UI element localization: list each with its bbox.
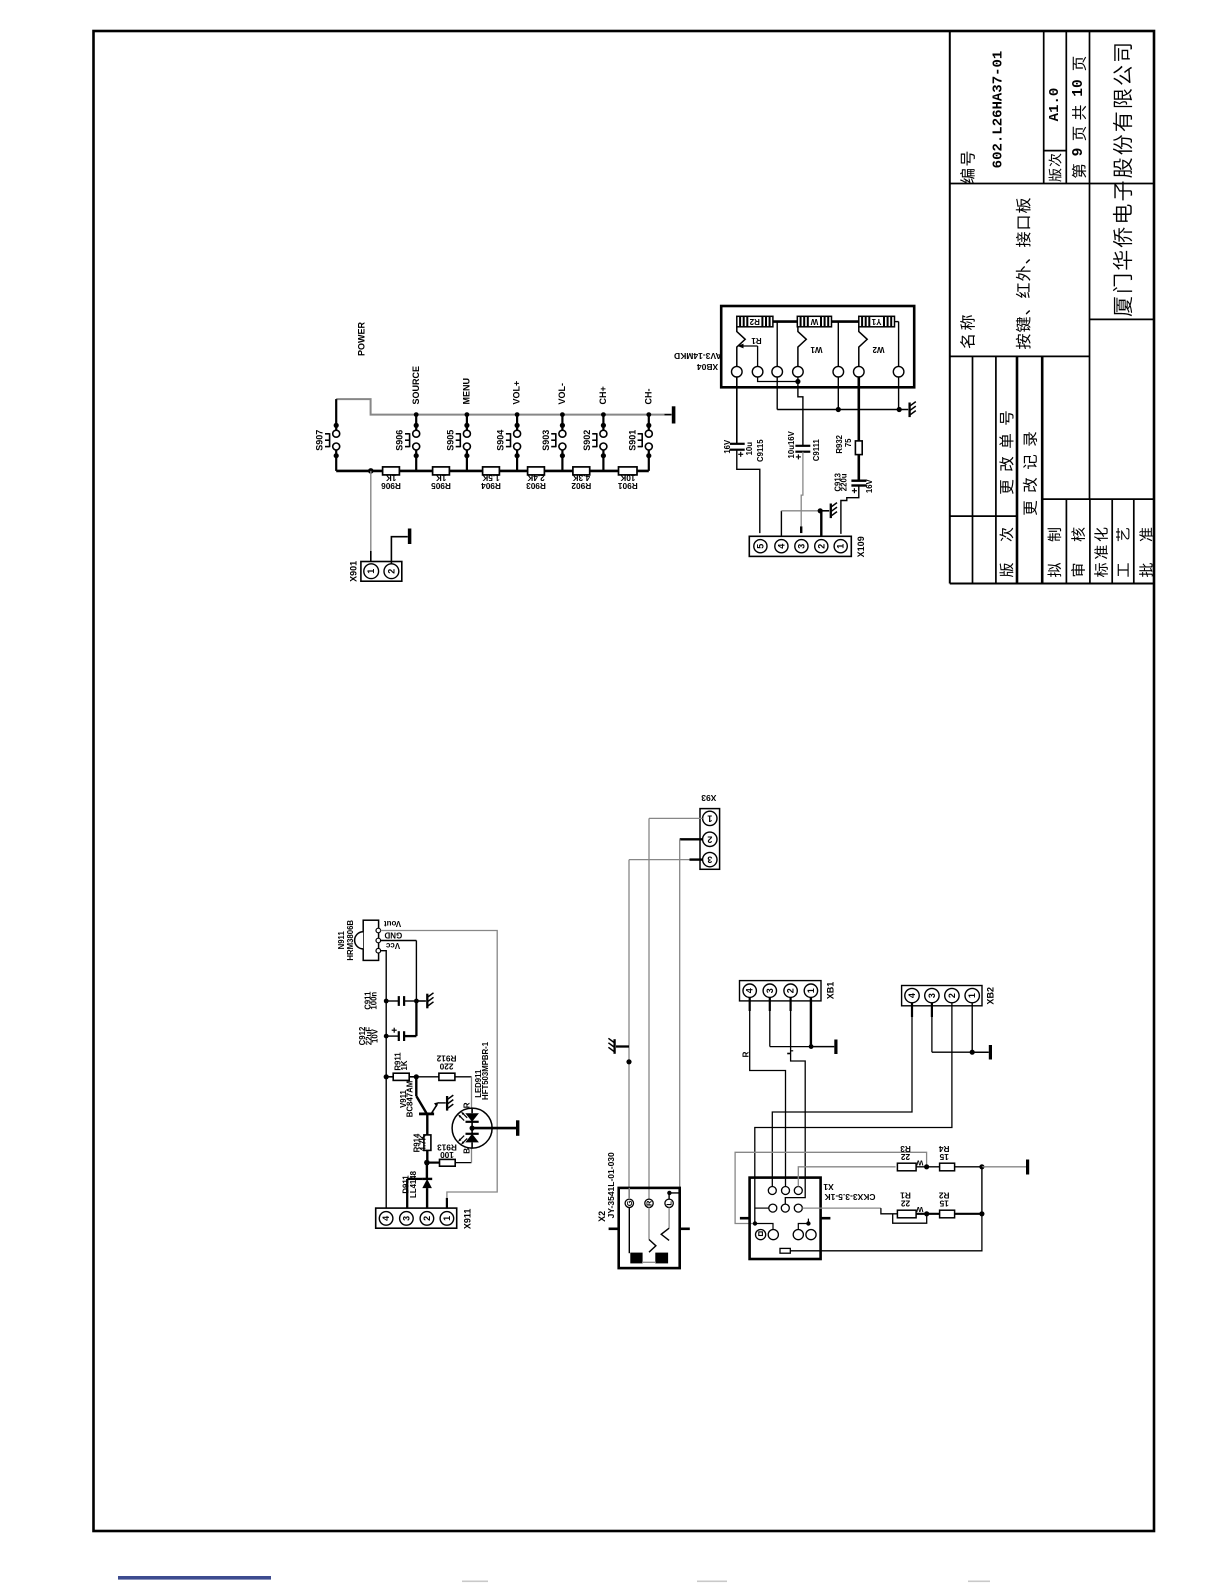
svg-text:2: 2 — [816, 544, 826, 549]
wire resistor row — [336, 470, 649, 473]
X901 pin 1 — [364, 564, 379, 579]
svg-text:22: 22 — [901, 1198, 911, 1208]
X1 mid-left wire — [755, 1207, 769, 1209]
svg-text:1: 1 — [836, 544, 846, 549]
svg-text:2: 2 — [786, 988, 796, 993]
X911 pin 1 — [440, 1212, 454, 1226]
switch S906 — [414, 412, 419, 417]
wire R912 to LED R — [471, 1077, 473, 1109]
svg-text:4: 4 — [776, 544, 786, 549]
resistor R901 — [619, 467, 638, 475]
svg-text:4: 4 — [381, 1216, 391, 1221]
ground on X93 pin3 wire — [616, 1045, 629, 1047]
svg-text:XB2: XB2 — [986, 987, 996, 1005]
wire inside XB04 to pin3 — [776, 322, 778, 367]
svg-text:100: 100 — [440, 1150, 454, 1160]
title label genggaidanhao — [1000, 480, 1013, 494]
svg-text:2: 2 — [422, 1216, 432, 1221]
svg-text:HFT503MPBR-1: HFT503MPBR-1 — [481, 1041, 490, 1100]
wire LED to ground — [472, 1127, 516, 1130]
svg-text:1: 1 — [366, 569, 376, 574]
ground right of LED911 — [516, 1120, 519, 1136]
svg-text:220u: 220u — [840, 473, 849, 491]
ground near X901 — [408, 529, 412, 545]
XB1 pin 2 — [784, 984, 797, 997]
svg-text:VOL+: VOL+ — [512, 381, 522, 405]
svg-text:1: 1 — [806, 988, 816, 993]
resistor R932 — [855, 441, 862, 455]
svg-text:22: 22 — [901, 1152, 911, 1162]
wire X1 outer gray loop — [735, 1152, 927, 1223]
resistor R904 — [483, 467, 500, 475]
wire C9111 to X109 pin3 — [801, 452, 803, 527]
X2 pin R — [645, 1199, 653, 1207]
svg-text:R: R — [742, 1051, 751, 1057]
svg-text:S903: S903 — [541, 430, 551, 451]
X1 middle row circles — [769, 1204, 777, 1212]
svg-text:C9111: C9111 — [812, 438, 821, 461]
svg-text:A1.0: A1.0 — [1047, 88, 1063, 122]
svg-text:BC847AM: BC847AM — [405, 1081, 414, 1117]
svg-text:B: B — [462, 1148, 471, 1154]
diode D911 — [422, 1178, 432, 1180]
svg-text:4: 4 — [745, 988, 755, 993]
wire D911 cathode to X911 pin3 — [407, 1178, 422, 1180]
svg-text:3: 3 — [401, 1216, 411, 1221]
X1 top-right wire — [798, 1167, 895, 1187]
title page 9 of 10 — [1072, 164, 1086, 178]
junction on X93 pin3 wire — [626, 1059, 631, 1064]
svg-text:602.L26HA37-01: 602.L26HA37-01 — [991, 51, 1007, 169]
junction C911 left — [384, 999, 389, 1004]
wire XB1 pin4 — [749, 997, 751, 1011]
svg-text:XB04: XB04 — [697, 362, 719, 372]
svg-text:CH+: CH+ — [598, 386, 608, 404]
wire G stub — [628, 1188, 630, 1199]
svg-text:4: 4 — [907, 993, 917, 998]
svg-text:2: 2 — [707, 834, 712, 844]
svg-text:MENU: MENU — [462, 378, 472, 405]
svg-text:10u16V: 10u16V — [787, 430, 796, 458]
svg-text:R: R — [645, 1200, 654, 1206]
svg-text:3: 3 — [707, 855, 712, 865]
svg-text:W: W — [810, 317, 818, 326]
wire R switch — [648, 1208, 650, 1240]
svg-text:X109: X109 — [856, 536, 866, 557]
wire R932 to C913 — [857, 455, 860, 481]
svg-text:X901: X901 — [349, 561, 359, 582]
svg-text:S901: S901 — [627, 430, 637, 451]
svg-text:X911: X911 — [463, 1209, 473, 1230]
connector X1 box — [750, 1178, 821, 1259]
svg-text:X1: X1 — [823, 1182, 834, 1192]
resistor R2 — [940, 1210, 955, 1218]
svg-text:CKX3-3.5-1K: CKX3-3.5-1K — [824, 1192, 876, 1202]
wire inside XB04 to pin7 — [895, 321, 899, 323]
X1 side tabs — [740, 1217, 750, 1220]
connector XB04 box — [721, 306, 914, 387]
wire XB2 pin3 — [931, 1003, 933, 1017]
X2 pads — [631, 1253, 642, 1263]
wire gnd to C912 — [415, 1001, 417, 1036]
ground at V911 emitter — [446, 1096, 448, 1111]
wire collector to R914 — [426, 1114, 428, 1135]
wire X93 pin1 — [649, 817, 703, 819]
wire XB2 pin4 — [911, 1003, 913, 1017]
resistor R902 — [573, 467, 590, 475]
wire X109 pin4 gnd — [780, 511, 782, 540]
resistor R912 — [416, 1076, 439, 1078]
X901 pin 2 — [384, 564, 399, 579]
wire XB2 pin1 — [971, 1003, 973, 1052]
X93 pin 1 — [703, 811, 717, 825]
wire Vcc rail — [381, 951, 387, 1213]
X2 pin L — [665, 1199, 673, 1207]
wire C9115 to X109 pin5 — [737, 450, 760, 533]
wire pin5 to gnd line — [837, 377, 839, 410]
switch S902 — [601, 412, 606, 417]
switch contact 3 — [859, 327, 867, 367]
R1 under loop — [893, 1214, 927, 1223]
svg-text:SOURCE: SOURCE — [411, 366, 421, 405]
wire pin4 to C9111 — [798, 377, 803, 446]
X2 pin G — [625, 1199, 633, 1207]
resistor R914 — [424, 1135, 431, 1151]
X109 pin 2 — [815, 540, 828, 553]
LED emission arrows — [459, 1116, 464, 1121]
LED911 circle — [452, 1108, 492, 1148]
title label genggaijilu — [1024, 501, 1037, 515]
svg-text:L: L — [665, 1201, 674, 1206]
svg-text:10u: 10u — [745, 442, 754, 456]
capacitor C911 — [398, 996, 400, 1006]
resistor R1 — [897, 1210, 916, 1218]
wire junction to D911 — [426, 1163, 428, 1179]
resistor R4 — [940, 1163, 955, 1171]
junction at X901 wire — [368, 468, 374, 474]
X1 top row circles — [768, 1187, 776, 1195]
X109 pin 3 — [795, 540, 808, 553]
switch contact 2 — [798, 327, 806, 367]
svg-text:15: 15 — [939, 1198, 949, 1208]
svg-text:R932: R932 — [835, 434, 844, 453]
connector X901 box — [361, 562, 402, 582]
wire X901 pin1 — [370, 471, 372, 551]
title sheet name anjian hongwai jiekouban — [1016, 334, 1031, 349]
X1 left dot elbow — [755, 1224, 773, 1230]
junction base node — [414, 1074, 419, 1079]
X911 pin 4 — [379, 1212, 393, 1226]
wire R4 to gnd — [955, 1166, 982, 1168]
wire XB2 pin2 — [951, 1003, 953, 1017]
svg-text:4.7K: 4.7K — [419, 1134, 428, 1151]
title label bianhao — [960, 169, 975, 183]
svg-text:AV3-14MKD: AV3-14MKD — [674, 351, 722, 361]
svg-text:3: 3 — [765, 988, 775, 993]
switch S903 — [560, 412, 565, 417]
svg-text:16V: 16V — [723, 439, 732, 454]
svg-text:XB1: XB1 — [825, 982, 835, 1000]
connector X93 box — [700, 809, 720, 870]
connector XB1 box — [740, 981, 822, 1001]
junction R3 R4 — [924, 1164, 929, 1169]
jack Y1 — [859, 316, 895, 327]
svg-text:R906: R906 — [381, 481, 401, 491]
XB1 pin 1 — [804, 984, 817, 997]
title label shen he — [1071, 564, 1085, 577]
wire inside XB04 to pin5 — [837, 322, 839, 367]
svg-text:LL4148: LL4148 — [409, 1170, 418, 1198]
wire C913 to X109 pin1 — [841, 486, 859, 534]
wire X93 pin3 — [690, 858, 703, 860]
svg-text:C9115: C9115 — [756, 439, 765, 462]
switch S901 — [646, 412, 651, 417]
resistor R906 — [383, 467, 400, 475]
svg-text:GND: GND — [384, 931, 402, 940]
scan artifact marks — [462, 1581, 488, 1583]
junction C911 right — [414, 999, 419, 1004]
wire G to pads — [628, 1208, 630, 1254]
tick on XB1 pin2 wire — [787, 1053, 790, 1055]
wire R3 to R4 — [916, 1166, 940, 1168]
IR receiver N911 box — [363, 920, 378, 960]
title label ban ci — [999, 563, 1013, 577]
connector XB2 box — [902, 986, 982, 1006]
svg-text:15: 15 — [939, 1152, 949, 1162]
svg-text:3: 3 — [927, 993, 937, 998]
svg-text:N911: N911 — [337, 931, 346, 950]
XB2 pin 2 — [945, 988, 959, 1002]
wire jack W to Y1 — [832, 320, 859, 323]
junction R914 R913 D911 — [424, 1160, 430, 1166]
capacitor C913 — [851, 480, 866, 482]
svg-text:10: 10 — [1071, 79, 1087, 96]
junction X109 pin2 — [818, 508, 823, 513]
title company Xiamen Overseas Chinese Electronics — [1114, 297, 1132, 316]
wire GND rail — [381, 940, 417, 942]
wire X901 pin2 to ground — [391, 537, 407, 564]
wire R1 to R2 — [916, 1213, 940, 1215]
svg-text:9: 9 — [1071, 148, 1087, 157]
svg-text:POWER: POWER — [357, 321, 367, 356]
wire X109 pin2 — [820, 511, 822, 540]
wire Vout to X911 pin1 — [381, 931, 498, 1198]
ground right of XB1 — [811, 1046, 834, 1048]
title block grid — [949, 31, 951, 584]
svg-text:S904: S904 — [496, 430, 506, 451]
svg-text:CH-: CH- — [643, 389, 653, 405]
resistor R913 — [427, 1161, 440, 1163]
wire keypad bus — [336, 399, 664, 415]
title label mingcheng — [960, 335, 975, 348]
svg-text:R905: R905 — [431, 481, 451, 491]
svg-text:3: 3 — [796, 544, 806, 549]
X109 pin 4 — [775, 540, 788, 553]
XB1 pin 3 — [763, 984, 776, 997]
wire XB1 pin1 — [810, 997, 812, 1046]
wire R913 to LED B — [471, 1148, 473, 1163]
svg-text:Vout: Vout — [384, 919, 402, 928]
svg-text:1K: 1K — [400, 1060, 409, 1070]
svg-text:VOL-: VOL- — [557, 383, 567, 405]
svg-text:S905: S905 — [445, 430, 455, 451]
svg-text:Y1: Y1 — [871, 317, 881, 326]
connector X109 box — [749, 536, 851, 556]
wire pin1 to C9115 — [736, 377, 738, 444]
X93 pin 2 — [703, 832, 717, 846]
resistor R905 — [433, 467, 450, 475]
wire L elbow — [669, 1193, 680, 1199]
X2 side tabs — [609, 1228, 619, 1231]
jack R2 — [737, 316, 773, 327]
ground near X109 — [820, 510, 829, 512]
capacitor C912 — [398, 1031, 400, 1041]
wire R2 right — [955, 1213, 982, 1215]
svg-text:R902: R902 — [571, 481, 591, 491]
title label gong yi — [1118, 563, 1129, 576]
wire XB1 pin3 — [769, 997, 771, 1011]
junction Vcc at R911 — [384, 1074, 389, 1079]
wire X1 bottom to resistor node — [790, 1214, 982, 1251]
svg-text:X93: X93 — [701, 793, 716, 803]
capacitor C9115 — [730, 443, 745, 445]
resistor R911 — [386, 1076, 393, 1078]
ground right of C911 — [416, 1000, 426, 1002]
XB2 pin 1 — [965, 988, 979, 1002]
junction XB1 pin1 gnd — [809, 1044, 814, 1049]
wire pin3 ground line — [776, 377, 778, 410]
svg-text:R903: R903 — [526, 481, 546, 491]
junction XB2 gnd — [970, 1050, 975, 1055]
N911 pins — [376, 928, 381, 933]
svg-text:G: G — [625, 1200, 634, 1206]
svg-text:5: 5 — [755, 544, 765, 549]
svg-text:S906: S906 — [395, 430, 405, 451]
ground bus right — [672, 406, 676, 423]
junction R1 R2 — [924, 1211, 929, 1216]
svg-text:S902: S902 — [582, 430, 592, 451]
connector X2 box — [619, 1188, 680, 1268]
svg-text:W1: W1 — [810, 345, 823, 354]
svg-text:100n: 100n — [370, 992, 379, 1010]
wire XB1 pin2 — [789, 997, 791, 1011]
X109 pin 1 — [834, 540, 847, 553]
svg-text:10V: 10V — [371, 1028, 380, 1043]
X1 left dot — [753, 1221, 757, 1225]
switch contact 1 — [737, 327, 745, 367]
svg-text:W2: W2 — [872, 345, 885, 354]
ground right of R4 — [1026, 1160, 1029, 1175]
wire L switch — [668, 1208, 670, 1229]
svg-text:W: W — [915, 1158, 923, 1167]
svg-text:16V: 16V — [865, 478, 874, 493]
X911 pin 3 — [400, 1212, 414, 1226]
capacitor C9111 — [795, 445, 810, 447]
svg-text:R2: R2 — [749, 317, 760, 326]
svg-text:R1: R1 — [751, 336, 762, 345]
X1 bottom rect — [780, 1248, 790, 1253]
LED911 internals — [471, 1108, 473, 1113]
svg-text:JY-3541L-01-030: JY-3541L-01-030 — [606, 1152, 616, 1218]
svg-text:220: 220 — [439, 1062, 453, 1072]
svg-text:2: 2 — [947, 993, 957, 998]
svg-text:R904: R904 — [481, 481, 501, 491]
transistor V911 — [415, 1077, 417, 1096]
junction LED center — [470, 1126, 475, 1131]
wire X93 pin2 — [680, 838, 703, 840]
X1 mid-right wire — [802, 1207, 881, 1209]
resistor R903 — [528, 467, 545, 475]
junction pin4 XB04 — [795, 379, 800, 384]
title label biaozhunhua — [1094, 563, 1108, 577]
XB1 pin 4 — [743, 984, 756, 997]
title label banci — [1049, 169, 1062, 182]
svg-text:75: 75 — [844, 438, 853, 447]
svg-text:1: 1 — [442, 1216, 452, 1221]
ground right of XB04 — [908, 403, 910, 418]
svg-text:HRM3806B: HRM3806B — [346, 920, 355, 961]
svg-text:R901: R901 — [618, 481, 638, 491]
ground right of XB2 — [972, 1051, 989, 1053]
title label pi zhun — [1139, 563, 1153, 577]
X1 right dot elbow — [798, 1224, 808, 1230]
X911 pin 2 — [420, 1212, 434, 1226]
wire pin7 to gnd line — [898, 377, 900, 410]
switch S904 — [515, 412, 520, 417]
svg-text:S907: S907 — [315, 430, 325, 451]
X109 pin 5 — [754, 540, 767, 553]
XB2 pin 3 — [925, 988, 939, 1002]
scan artifact blue line — [118, 1576, 271, 1580]
svg-text:1: 1 — [967, 993, 977, 998]
XB04 pin circles — [732, 366, 743, 377]
XB2 pin 4 — [905, 988, 919, 1002]
switch S905 — [465, 412, 470, 417]
wire R914 to junction — [426, 1150, 428, 1162]
svg-text:Vcc: Vcc — [385, 941, 400, 950]
X93 pin 3 — [703, 852, 717, 866]
svg-text:1: 1 — [707, 813, 712, 823]
junction C912 left — [384, 1034, 389, 1039]
connector X911 box — [376, 1208, 457, 1228]
wire jack R2 to W — [773, 320, 797, 323]
switch S907 — [335, 399, 337, 430]
X1 bottom circles — [756, 1230, 766, 1240]
svg-text:2: 2 — [386, 569, 396, 574]
jack W — [797, 316, 831, 327]
svg-text:R: R — [462, 1102, 471, 1108]
X1 right dot — [806, 1221, 810, 1225]
title label ni zhi — [1047, 563, 1061, 577]
wire pin6 to R932 — [857, 377, 860, 441]
resistor R3 — [897, 1163, 916, 1171]
